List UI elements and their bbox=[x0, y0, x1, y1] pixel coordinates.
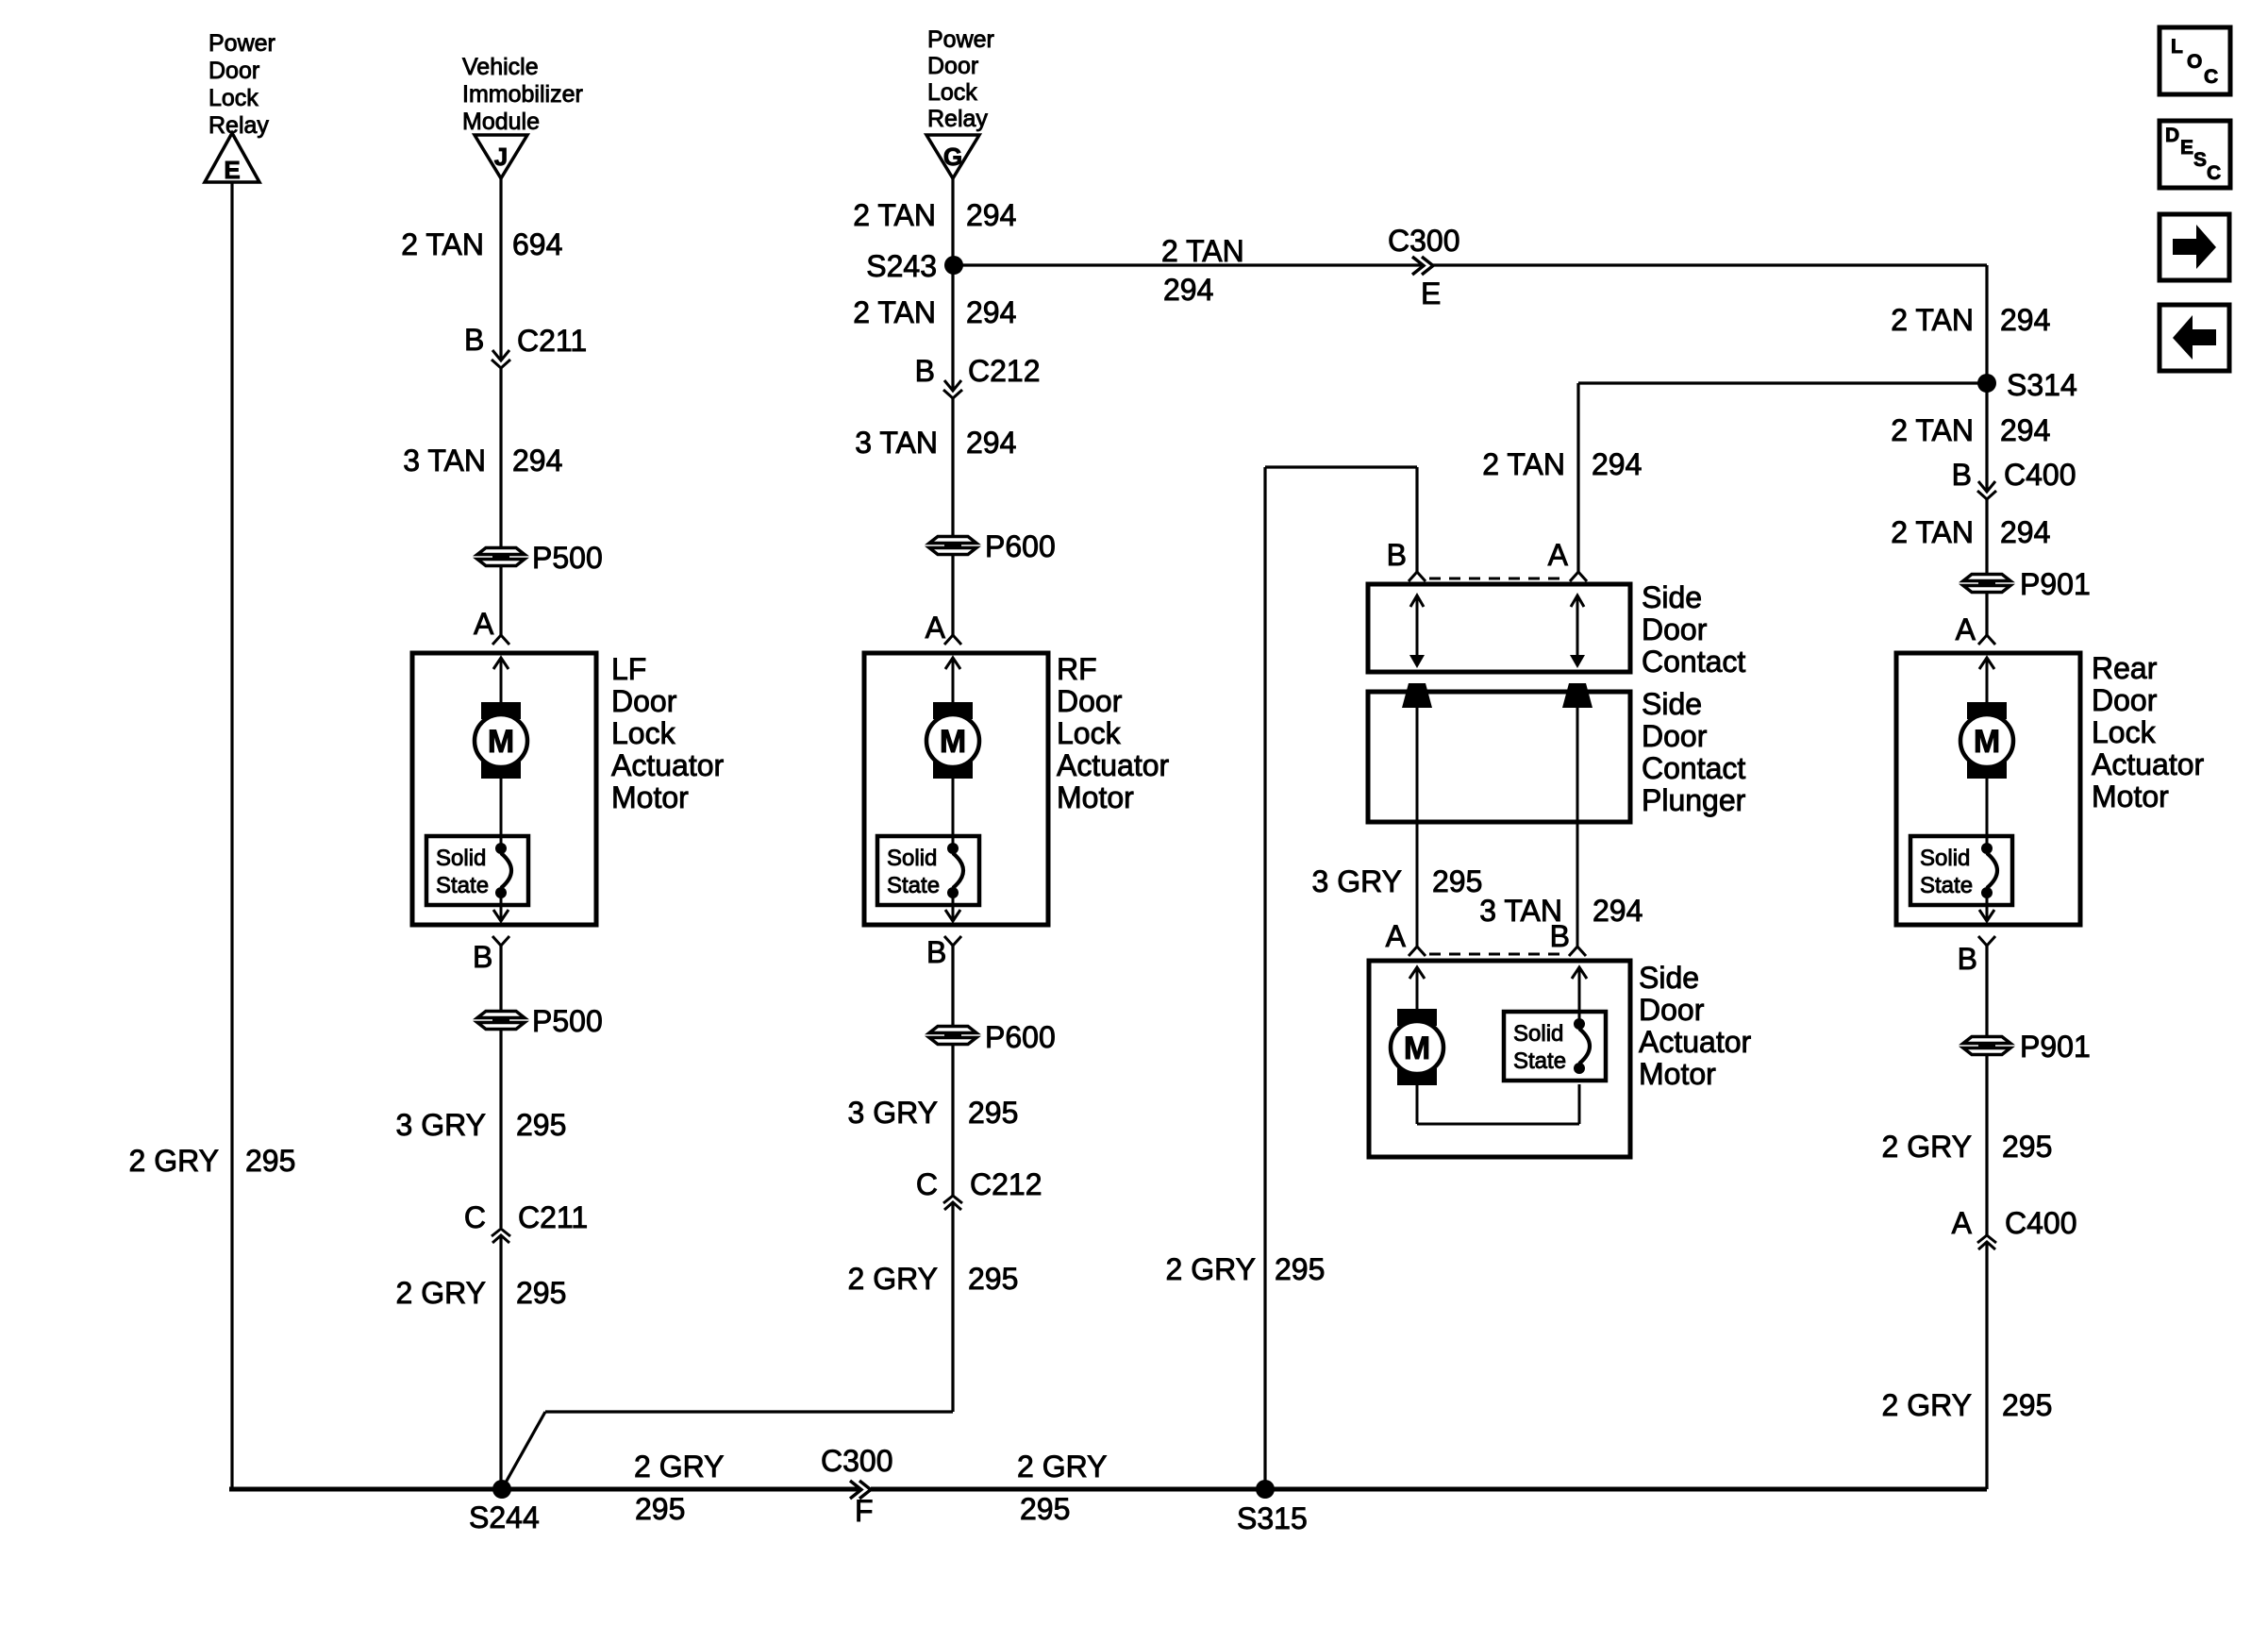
svg-text:Motor: Motor bbox=[2092, 779, 2169, 813]
svg-text:Rear: Rear bbox=[2092, 651, 2158, 685]
svg-text:Actuator: Actuator bbox=[1639, 1025, 1752, 1059]
svg-text:C400: C400 bbox=[2005, 1206, 2077, 1240]
svg-text:694: 694 bbox=[512, 227, 562, 261]
svg-text:B: B bbox=[464, 323, 484, 357]
svg-text:Door: Door bbox=[611, 684, 677, 718]
svg-text:3 GRY: 3 GRY bbox=[848, 1096, 938, 1130]
svg-text:2 TAN: 2 TAN bbox=[853, 198, 936, 232]
svg-text:M: M bbox=[1974, 724, 2000, 760]
svg-text:P500: P500 bbox=[532, 541, 603, 575]
svg-text:Solid: Solid bbox=[436, 846, 486, 871]
svg-text:Lock: Lock bbox=[611, 716, 676, 750]
svg-text:2 GRY: 2 GRY bbox=[129, 1144, 219, 1178]
svg-text:294: 294 bbox=[966, 426, 1016, 460]
svg-text:Motor: Motor bbox=[611, 780, 689, 814]
svg-text:2 TAN: 2 TAN bbox=[1482, 447, 1565, 481]
svg-text:Door: Door bbox=[1057, 684, 1123, 718]
svg-text:2 TAN: 2 TAN bbox=[1891, 303, 1974, 337]
svg-text:Door: Door bbox=[1642, 612, 1708, 646]
svg-text:294: 294 bbox=[1163, 273, 1213, 307]
svg-text:294: 294 bbox=[2000, 413, 2050, 447]
svg-text:A: A bbox=[1548, 538, 1569, 572]
svg-text:C300: C300 bbox=[821, 1444, 893, 1478]
svg-text:3 GRY: 3 GRY bbox=[396, 1108, 486, 1142]
svg-text:2 TAN: 2 TAN bbox=[1891, 413, 1974, 447]
svg-text:RF: RF bbox=[1057, 652, 1097, 686]
svg-text:294: 294 bbox=[2000, 303, 2050, 337]
svg-text:A: A bbox=[1386, 919, 1407, 953]
svg-text:295: 295 bbox=[2002, 1130, 2052, 1164]
svg-text:C: C bbox=[916, 1167, 938, 1201]
svg-text:C: C bbox=[464, 1200, 486, 1234]
svg-text:Door: Door bbox=[1642, 719, 1708, 753]
svg-text:Immobilizer: Immobilizer bbox=[462, 81, 583, 108]
svg-text:Plunger: Plunger bbox=[1642, 783, 1746, 817]
svg-text:B: B bbox=[915, 354, 935, 388]
svg-text:2 GRY: 2 GRY bbox=[1166, 1252, 1256, 1286]
svg-text:Solid: Solid bbox=[1920, 846, 1970, 871]
svg-text:C212: C212 bbox=[968, 354, 1041, 388]
svg-text:B: B bbox=[926, 935, 946, 969]
svg-text:B: B bbox=[473, 940, 492, 974]
svg-text:S243: S243 bbox=[866, 249, 937, 283]
svg-text:2 GRY: 2 GRY bbox=[1882, 1388, 1972, 1422]
svg-text:295: 295 bbox=[1432, 864, 1482, 898]
svg-text:3 GRY: 3 GRY bbox=[1312, 864, 1402, 898]
svg-text:2 TAN: 2 TAN bbox=[853, 295, 936, 329]
svg-text:Lock: Lock bbox=[1057, 716, 1122, 750]
svg-text:B: B bbox=[1958, 942, 1977, 976]
svg-text:Contact: Contact bbox=[1642, 645, 1745, 679]
svg-text:2 GRY: 2 GRY bbox=[396, 1276, 486, 1310]
svg-text:295: 295 bbox=[516, 1108, 566, 1142]
svg-text:C212: C212 bbox=[970, 1167, 1042, 1201]
svg-text:2 GRY: 2 GRY bbox=[848, 1262, 938, 1296]
svg-text:2 TAN: 2 TAN bbox=[1161, 234, 1244, 268]
svg-text:Motor: Motor bbox=[1057, 780, 1134, 814]
svg-text:Contact: Contact bbox=[1642, 751, 1745, 785]
svg-text:295: 295 bbox=[1275, 1252, 1325, 1286]
svg-text:Relay: Relay bbox=[208, 112, 269, 139]
svg-text:294: 294 bbox=[1593, 894, 1643, 928]
svg-text:295: 295 bbox=[516, 1276, 566, 1310]
svg-text:A: A bbox=[1952, 1206, 1973, 1240]
svg-text:State: State bbox=[887, 873, 940, 898]
svg-text:3 TAN: 3 TAN bbox=[855, 426, 938, 460]
svg-text:S315: S315 bbox=[1237, 1501, 1308, 1535]
svg-text:P901: P901 bbox=[2020, 567, 2091, 601]
svg-text:Actuator: Actuator bbox=[611, 748, 725, 782]
svg-text:Module: Module bbox=[462, 109, 540, 135]
svg-text:294: 294 bbox=[1592, 447, 1642, 481]
svg-text:C400: C400 bbox=[2004, 458, 2076, 492]
svg-text:Door: Door bbox=[208, 58, 259, 84]
svg-text:M: M bbox=[940, 724, 966, 760]
svg-text:2 GRY: 2 GRY bbox=[1017, 1450, 1107, 1484]
svg-text:Side: Side bbox=[1642, 687, 1702, 721]
svg-text:D: D bbox=[2165, 125, 2179, 146]
svg-text:M: M bbox=[488, 724, 514, 760]
svg-text:294: 294 bbox=[966, 295, 1016, 329]
svg-text:Motor: Motor bbox=[1639, 1057, 1716, 1091]
svg-text:E: E bbox=[1421, 277, 1441, 310]
svg-text:S: S bbox=[2193, 149, 2207, 171]
svg-text:2 GRY: 2 GRY bbox=[1882, 1130, 1972, 1164]
svg-text:B: B bbox=[1387, 538, 1407, 572]
svg-text:L: L bbox=[2171, 36, 2183, 58]
svg-text:C300: C300 bbox=[1388, 224, 1460, 258]
svg-text:State: State bbox=[436, 873, 489, 898]
svg-text:2 GRY: 2 GRY bbox=[634, 1450, 724, 1484]
svg-text:Relay: Relay bbox=[927, 106, 988, 132]
svg-text:S244: S244 bbox=[469, 1500, 540, 1534]
svg-text:Power: Power bbox=[208, 30, 275, 57]
svg-text:Actuator: Actuator bbox=[2092, 747, 2205, 781]
svg-text:B: B bbox=[1952, 458, 1972, 492]
svg-text:Side: Side bbox=[1639, 961, 1699, 995]
svg-text:F: F bbox=[855, 1494, 874, 1528]
svg-text:295: 295 bbox=[245, 1144, 295, 1178]
svg-text:Vehicle: Vehicle bbox=[462, 54, 539, 80]
svg-text:C: C bbox=[2207, 162, 2221, 184]
svg-text:C211: C211 bbox=[518, 1200, 588, 1234]
svg-text:3 TAN: 3 TAN bbox=[403, 444, 486, 478]
svg-text:O: O bbox=[2187, 51, 2202, 73]
svg-text:State: State bbox=[1513, 1048, 1566, 1074]
svg-text:Lock: Lock bbox=[2092, 715, 2157, 749]
svg-text:A: A bbox=[474, 607, 494, 641]
svg-text:P600: P600 bbox=[985, 1020, 1056, 1054]
svg-text:P901: P901 bbox=[2020, 1030, 2091, 1064]
svg-text:M: M bbox=[1404, 1031, 1430, 1066]
svg-text:294: 294 bbox=[966, 198, 1016, 232]
svg-text:G: G bbox=[943, 142, 962, 171]
svg-text:C211: C211 bbox=[517, 324, 587, 358]
svg-text:295: 295 bbox=[968, 1096, 1018, 1130]
svg-text:State: State bbox=[1920, 873, 1973, 898]
svg-text:Lock: Lock bbox=[927, 79, 977, 106]
svg-text:295: 295 bbox=[968, 1262, 1018, 1296]
svg-text:295: 295 bbox=[2002, 1388, 2052, 1422]
svg-text:Side: Side bbox=[1642, 580, 1702, 614]
svg-text:A: A bbox=[1956, 612, 1976, 646]
svg-text:Power: Power bbox=[927, 26, 994, 53]
svg-text:295: 295 bbox=[635, 1492, 685, 1526]
svg-text:Door: Door bbox=[1639, 993, 1705, 1027]
svg-text:P500: P500 bbox=[532, 1004, 603, 1038]
svg-text:Door: Door bbox=[927, 53, 978, 79]
svg-text:2 TAN: 2 TAN bbox=[1891, 515, 1974, 549]
svg-text:295: 295 bbox=[1020, 1492, 1070, 1526]
svg-text:A: A bbox=[926, 611, 946, 645]
svg-text:LF: LF bbox=[611, 652, 646, 686]
svg-text:B: B bbox=[1550, 919, 1570, 953]
svg-text:E: E bbox=[224, 156, 240, 184]
svg-text:Door: Door bbox=[2092, 683, 2158, 717]
svg-text:Solid: Solid bbox=[887, 846, 937, 871]
svg-text:Lock: Lock bbox=[208, 85, 258, 111]
svg-text:Solid: Solid bbox=[1513, 1021, 1563, 1047]
svg-text:Actuator: Actuator bbox=[1057, 748, 1170, 782]
svg-text:S314: S314 bbox=[2007, 368, 2077, 402]
svg-text:294: 294 bbox=[512, 444, 562, 478]
svg-text:E: E bbox=[2180, 137, 2193, 159]
svg-text:C: C bbox=[2204, 66, 2218, 88]
svg-text:J: J bbox=[494, 142, 508, 171]
svg-text:2 TAN: 2 TAN bbox=[401, 227, 484, 261]
svg-text:P600: P600 bbox=[985, 529, 1056, 563]
svg-text:294: 294 bbox=[2000, 515, 2050, 549]
